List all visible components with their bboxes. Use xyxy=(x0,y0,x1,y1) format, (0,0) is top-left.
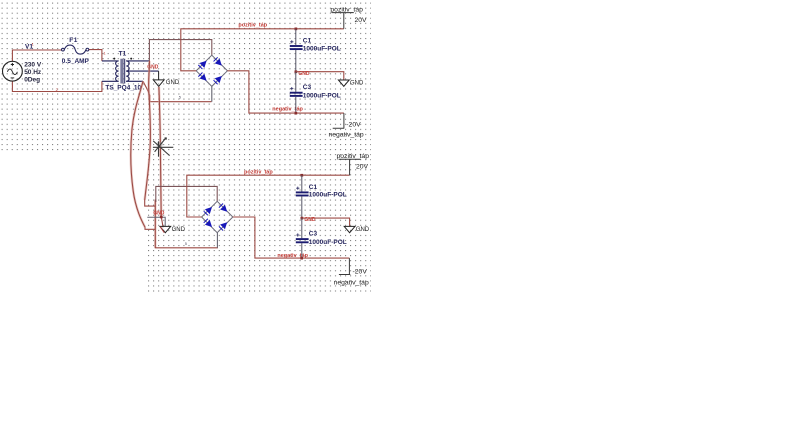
grid background bottom block xyxy=(148,152,371,292)
bridge rectifier top xyxy=(196,55,227,86)
svg-text:20V: 20V xyxy=(356,164,369,171)
svg-text:GND: GND xyxy=(166,80,180,86)
diode D7 xyxy=(203,218,214,229)
diode D5 xyxy=(203,205,214,216)
wire V1 bottom loop xyxy=(12,81,102,91)
wire lower mid rail to ground xyxy=(302,218,350,226)
svg-text:230 V: 230 V xyxy=(24,62,42,69)
secondary lead center tap xyxy=(126,70,158,72)
junction xyxy=(301,217,304,220)
svg-text:F1: F1 xyxy=(69,37,78,44)
wire lower bridge right vertex to negative rail xyxy=(233,217,350,258)
svg-text:T1: T1 xyxy=(119,51,127,58)
svg-text:-20V: -20V xyxy=(353,269,368,276)
lower bridge bottom vertex wire xyxy=(216,233,218,248)
svg-text:pozitiv_táp: pozitiv_táp xyxy=(330,7,363,14)
svg-text:TS_PQ4_10: TS_PQ4_10 xyxy=(105,84,141,91)
capacitor C1 lower xyxy=(296,175,309,218)
svg-text:0.5_AMP: 0.5_AMP xyxy=(62,58,90,65)
svg-text:1000uF-POL: 1000uF-POL xyxy=(309,192,347,199)
polarity dot primary xyxy=(113,58,115,60)
svg-text:C1: C1 xyxy=(309,184,318,191)
ground lower right xyxy=(344,226,355,232)
diode D6 xyxy=(219,203,230,214)
svg-text:C3: C3 xyxy=(303,84,312,91)
wire vertical to lower bridge bottom xyxy=(155,200,218,248)
snake wire C gnd to lower gnd xyxy=(159,87,163,228)
diamond xyxy=(196,55,227,86)
ground transformer xyxy=(153,80,164,86)
svg-text:GND: GND xyxy=(298,71,310,77)
tap negativ top xyxy=(333,113,345,128)
ac source V1 xyxy=(3,61,23,81)
svg-text:GND: GND xyxy=(356,227,370,233)
wire bridge bottom vertex xyxy=(211,86,213,101)
polarity dot secondary xyxy=(130,58,132,60)
wire fuse to transformer xyxy=(89,50,102,61)
tap pozitiv lower xyxy=(339,159,361,175)
diode D1 xyxy=(198,58,209,69)
wire lower bridge left vertex to positive rail xyxy=(187,175,350,217)
secondary lead top xyxy=(126,60,149,62)
junction xyxy=(160,216,163,219)
svg-text:1000uF-POL: 1000uF-POL xyxy=(303,45,341,52)
svg-text:1000uF-POL: 1000uF-POL xyxy=(303,92,341,99)
svg-text:GND: GND xyxy=(350,80,364,86)
junction xyxy=(295,70,298,73)
primary lead top xyxy=(102,60,119,62)
diode D2 xyxy=(213,57,224,68)
junction xyxy=(300,257,303,260)
diode D3 xyxy=(198,72,209,83)
secondary coil xyxy=(126,61,129,81)
bridge rectifier bottom xyxy=(202,201,233,232)
svg-text:negativ_táp: negativ_táp xyxy=(272,107,303,113)
svg-text:pozitiv_táp: pozitiv_táp xyxy=(238,23,267,29)
junction xyxy=(295,28,298,31)
diode D4 xyxy=(213,74,224,85)
svg-text:negativ_táp: negativ_táp xyxy=(329,131,364,138)
wire secondary top over bridge xyxy=(149,40,211,61)
junction marker cross xyxy=(153,137,173,156)
wire bridge right vertex to negative rail xyxy=(227,71,344,113)
transformer T1 xyxy=(102,58,159,84)
lower gnd stub wire xyxy=(147,217,165,226)
snake wire A secondary bottom to lower bridge xyxy=(131,81,156,229)
capacitor C1 xyxy=(290,29,303,72)
tap negativ lower xyxy=(339,258,350,274)
core xyxy=(121,59,125,84)
svg-text:pozitiv_táp: pozitiv_táp xyxy=(337,153,370,160)
svg-text:negativ_táp: negativ_táp xyxy=(334,279,369,286)
ground lower left xyxy=(160,226,171,232)
svg-text:GND: GND xyxy=(304,217,316,223)
svg-text:0Deg: 0Deg xyxy=(24,77,40,84)
diamond xyxy=(202,201,233,232)
svg-text:pozitiv_táp: pozitiv_táp xyxy=(244,170,273,176)
svg-text:GND: GND xyxy=(172,227,186,233)
svg-text:C3: C3 xyxy=(309,230,318,237)
junction xyxy=(301,174,304,177)
wire V1 top to fuse xyxy=(12,50,62,61)
svg-text:negativ_táp: negativ_táp xyxy=(277,253,308,259)
wire bridge left vertex to positive rail xyxy=(181,29,344,71)
wire center tap down xyxy=(158,71,160,80)
capacitor C3 xyxy=(290,72,303,113)
svg-text:20V: 20V xyxy=(355,17,368,24)
svg-text:50 Hz: 50 Hz xyxy=(24,69,42,76)
wire mid rail to ground xyxy=(296,72,344,80)
junction xyxy=(295,112,298,115)
svg-text:-20V: -20V xyxy=(346,121,361,128)
snake wire B secondary top to lower bridge xyxy=(145,61,156,206)
svg-text:1000uF-POL: 1000uF-POL xyxy=(309,239,347,246)
svg-text:GND: GND xyxy=(153,211,165,217)
tap pozitiv top xyxy=(332,13,354,29)
primary lead bottom xyxy=(102,80,119,82)
fuse F1 xyxy=(62,45,89,54)
lower bridge top vertex wire xyxy=(156,186,217,202)
grid background top block xyxy=(0,0,371,152)
primary coil xyxy=(116,61,119,81)
wire halo xyxy=(131,61,161,248)
ground right top xyxy=(338,80,349,86)
secondary lead bottom xyxy=(126,80,143,82)
svg-text:C1: C1 xyxy=(303,38,312,45)
capacitor C3 lower xyxy=(296,218,309,258)
diode D8 xyxy=(219,220,230,231)
wire secondary bottom slant to bridge xyxy=(143,81,212,101)
